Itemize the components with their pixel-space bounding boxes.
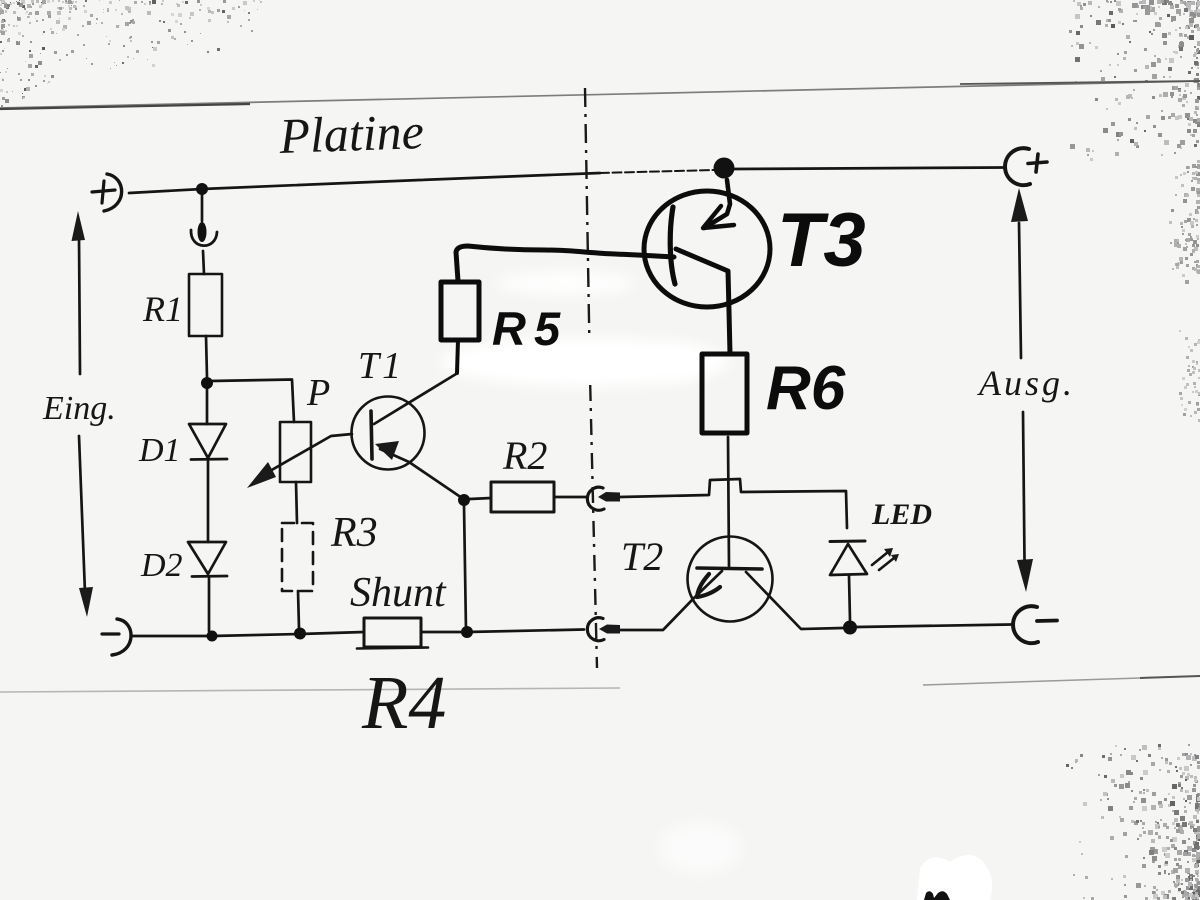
svg-text:LED: LED <box>871 498 932 531</box>
svg-text:Ausg.: Ausg. <box>977 363 1075 403</box>
svg-text:Platine: Platine <box>277 103 424 164</box>
svg-text:T2: T2 <box>621 534 663 579</box>
svg-text:R5: R5 <box>492 302 568 355</box>
svg-text:Eing.: Eing. <box>42 390 116 427</box>
svg-text:D2: D2 <box>140 547 183 584</box>
svg-text:P: P <box>306 372 330 414</box>
svg-text:R1: R1 <box>142 289 183 329</box>
svg-text:Shunt: Shunt <box>350 570 447 616</box>
svg-text:R2: R2 <box>502 433 547 478</box>
svg-text:R6: R6 <box>766 354 846 423</box>
svg-text:R3: R3 <box>330 510 378 556</box>
svg-text:D1: D1 <box>138 432 181 469</box>
svg-text:R4: R4 <box>361 661 446 745</box>
svg-text:T1: T1 <box>358 345 404 387</box>
svg-text:T3: T3 <box>777 198 866 283</box>
